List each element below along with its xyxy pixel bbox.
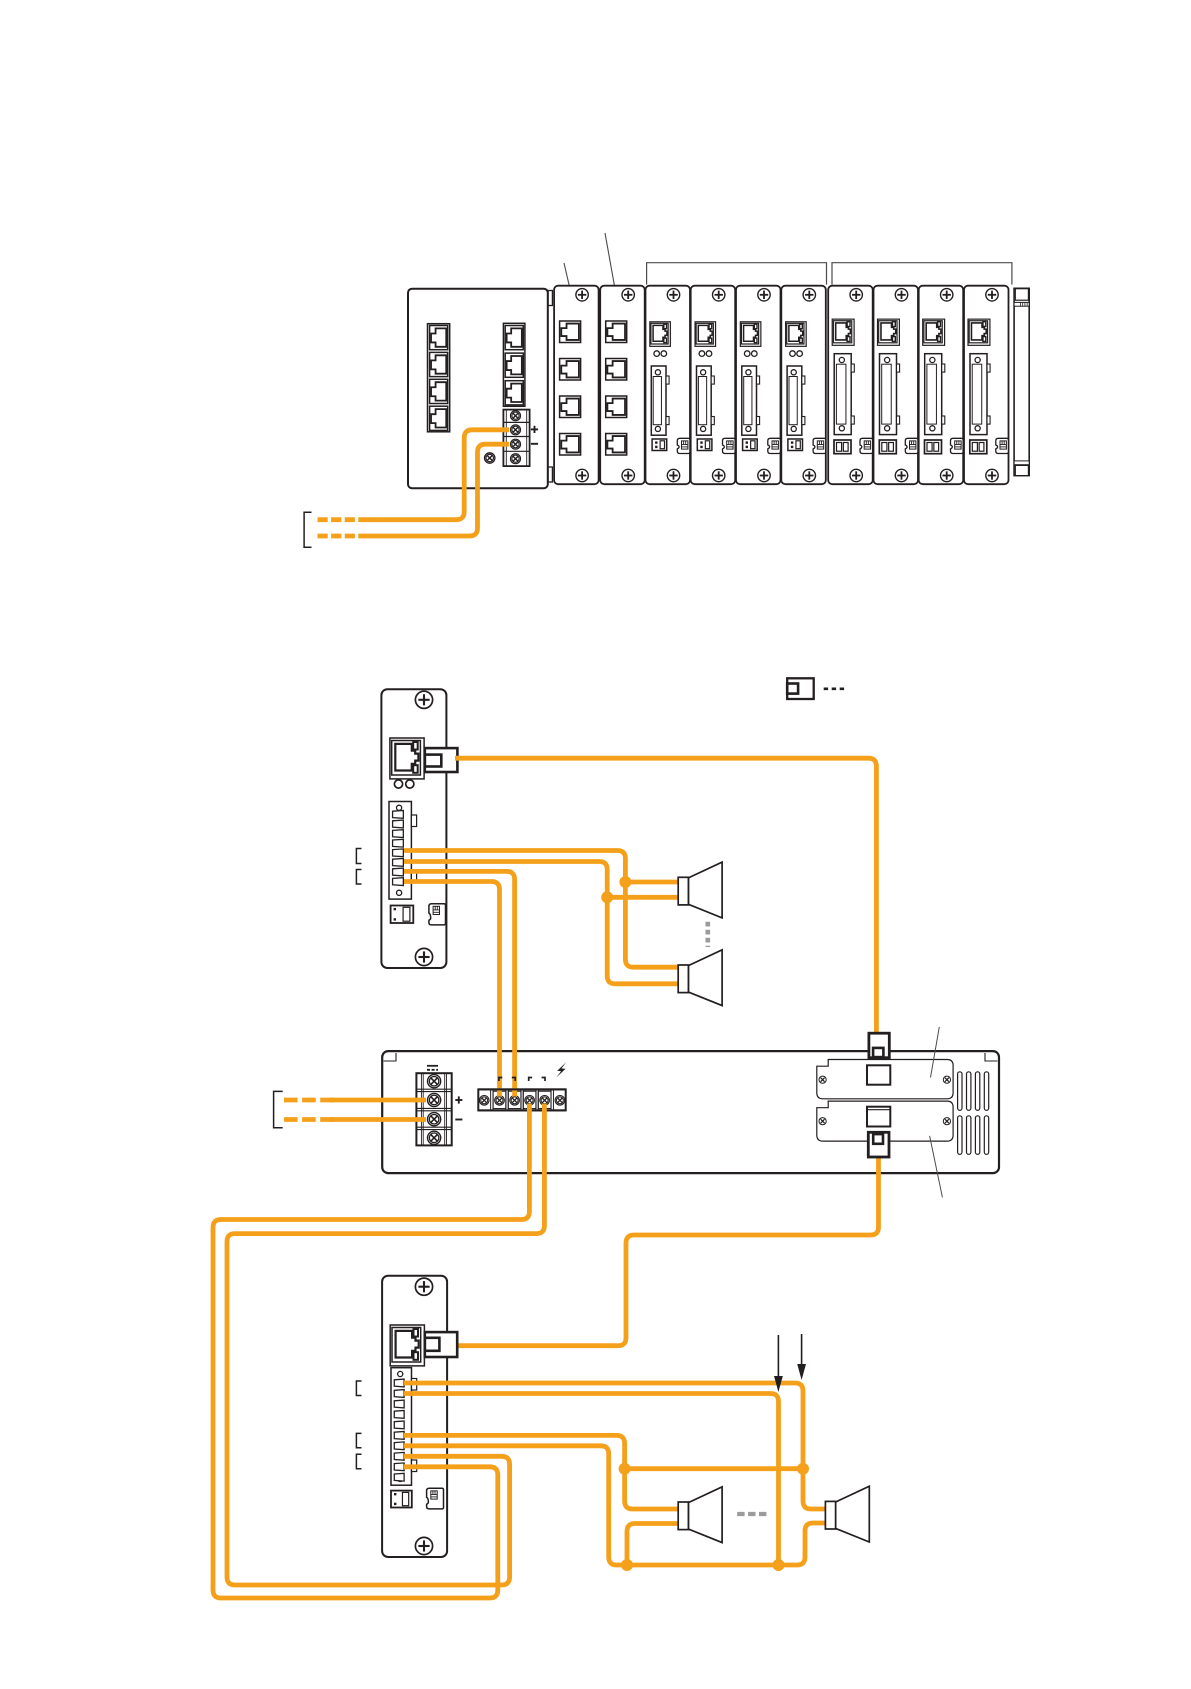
module 2 RJ45 jack 1 — [606, 321, 627, 343]
polarity marks — [499, 1078, 502, 1082]
branch SP4 - — [779, 1523, 826, 1565]
label + (rack) — [531, 428, 538, 430]
frame right RJ45 jack 1 — [505, 326, 523, 350]
module A bottom screw — [415, 948, 432, 965]
amp DC - wire — [330, 1117, 426, 1122]
module 5 top screw — [758, 289, 770, 301]
continuation dashes — [824, 687, 846, 690]
group bracket modules 3-6 — [647, 263, 827, 285]
module 8 monitor connector — [879, 440, 896, 454]
amp speaker terminal screw 5 — [540, 1096, 550, 1106]
module 9 RJ45 port — [923, 319, 945, 345]
vent slot — [975, 1072, 979, 1111]
module 3 top screw — [667, 289, 679, 301]
bus + cross link — [625, 1466, 803, 1471]
module 4 bottom screw — [713, 469, 725, 481]
vent slot — [958, 1072, 962, 1111]
frame left RJ45 jack 4 — [430, 406, 448, 430]
frame tab bottom — [548, 467, 552, 482]
frame chassis screw — [485, 453, 495, 463]
module B RJ45 port — [390, 1325, 424, 1366]
frame left RJ45 jack 1 — [430, 326, 448, 350]
module A panel — [381, 689, 446, 968]
amp DC source bracket — [274, 1091, 283, 1127]
rack end rail — [1014, 288, 1029, 475]
speaker SP3 — [678, 1487, 722, 1543]
module 10 link connector — [996, 438, 1009, 453]
amp DC terminal screw 2 — [428, 1093, 441, 1106]
module A terminal strip — [389, 802, 411, 900]
module 1 RJ45 jack 1 — [560, 321, 581, 343]
module A RJ45 plug — [425, 748, 458, 772]
hazard lightning symbol — [556, 1062, 566, 1077]
module 6 bottom screw — [803, 469, 815, 481]
wire module B pin6 to speaker SP3 + — [404, 1435, 678, 1509]
module A top screw — [415, 691, 432, 708]
rack DC + wire dashed continuation — [314, 517, 369, 522]
module 10 RJ45 port — [968, 319, 990, 345]
module 8 bottom screw — [895, 469, 907, 481]
module slot 4 — [691, 286, 736, 485]
frame right RJ45 jack 2 — [505, 353, 523, 377]
module 5 bottom screw — [758, 469, 770, 481]
module 4 link connector — [723, 438, 736, 453]
module 9 bottom screw — [941, 469, 953, 481]
vent slot — [984, 1072, 988, 1111]
module 1 top screw — [576, 289, 588, 301]
rack DC + wire — [368, 430, 509, 520]
module B bottom screw — [415, 1537, 432, 1554]
amp top-right corner step — [985, 1053, 998, 1061]
module A RJ45 port — [390, 738, 424, 779]
module 2 RJ45 jack 4 — [606, 434, 627, 456]
module slot 5 — [736, 286, 781, 485]
module 6 top screw — [803, 289, 815, 301]
module 7 bottom screw — [850, 469, 862, 481]
continuation plug symbol — [787, 678, 814, 699]
amp plate screw — [819, 1118, 826, 1125]
module 1 bottom screw — [576, 469, 588, 481]
vent slot — [958, 1116, 962, 1155]
amp speaker terminal screw 4 — [525, 1096, 535, 1106]
junction dot bus + left — [619, 1463, 631, 1475]
rack frame unit — [408, 289, 548, 489]
amp slot1 plug — [869, 1033, 889, 1058]
amp DC input block — [416, 1073, 451, 1145]
module 2 RJ45 jack 3 — [606, 396, 627, 418]
rack DC - wire — [368, 444, 509, 536]
amp module slot plate 2 — [817, 1101, 953, 1141]
module B pair bracket 3 — [356, 1454, 361, 1469]
wire module B pin7 to bus - — [404, 1446, 779, 1565]
module 7 top screw — [850, 289, 862, 301]
module 4 status LEDs — [699, 351, 705, 357]
rack DC source bracket — [304, 512, 311, 547]
wire module A pin8 to amp input terminal 2 — [404, 882, 500, 1097]
amp plate screw — [819, 1076, 826, 1083]
module 8 top screw — [895, 289, 907, 301]
rack DC terminal screw 4 — [511, 454, 521, 464]
module 3 terminal strip — [651, 366, 666, 435]
wire module A pin5 to speakers SP1/SP2 + — [404, 851, 678, 968]
module A status LEDs — [394, 780, 402, 788]
module 5 status LEDs — [744, 351, 750, 357]
amp leader line bottom — [930, 1136, 943, 1198]
amp top-left corner step — [384, 1053, 397, 1061]
label + (amp) — [455, 1099, 462, 1101]
module 3 bottom screw — [667, 469, 679, 481]
module 5 RJ45 port — [740, 322, 761, 347]
amplifier chassis — [382, 1051, 999, 1173]
amp plate screw — [943, 1076, 950, 1083]
module 4 terminal strip — [697, 366, 712, 435]
DC symbol — [427, 1065, 438, 1067]
ellipsis between SP3 SP4 — [737, 1512, 767, 1516]
wire module A data plug to amp slot 1 — [455, 758, 876, 1034]
module 2 bottom screw — [622, 469, 634, 481]
wire module B pin2 down — [404, 1394, 779, 1566]
branch SP3 - — [627, 1524, 678, 1566]
module 10 top screw — [986, 289, 998, 301]
amp speaker terminal screw 2 — [495, 1096, 505, 1106]
module B RJ45 plug — [425, 1332, 457, 1357]
frame tab top — [548, 291, 552, 306]
module A pair bracket 1 — [356, 849, 361, 864]
module 9 terminal strip — [925, 354, 942, 435]
module 6 terminal strip — [787, 366, 802, 435]
annotation arrow 2 — [777, 1335, 779, 1378]
module 2 RJ45 jack 2 — [606, 359, 627, 381]
module 10 bottom screw — [986, 469, 998, 481]
module 7 monitor connector — [834, 440, 851, 454]
amp speaker terminal strip — [478, 1089, 565, 1110]
speaker SP1 — [678, 862, 722, 918]
module 1 RJ45 jack 2 — [560, 359, 581, 381]
rack DC - wire dashed continuation — [314, 534, 369, 539]
module 3 status LEDs — [654, 351, 660, 357]
module 9 link connector — [951, 438, 964, 453]
vent slot — [967, 1116, 971, 1155]
speaker SP4 — [825, 1486, 869, 1542]
wire amp slot2 plug to module B data plug — [455, 1156, 879, 1346]
amp slot2 plug — [868, 1132, 889, 1157]
module B pair bracket 1 — [356, 1381, 361, 1396]
rack leader line 2 — [605, 233, 617, 300]
module 8 RJ45 port — [878, 319, 900, 345]
module A link connector — [429, 904, 446, 925]
module B panel — [382, 1276, 447, 1557]
frame left RJ45 jack 2 — [430, 352, 448, 376]
module B pair bracket 2 — [356, 1433, 361, 1447]
vent slot — [975, 1116, 979, 1155]
module B top screw — [415, 1278, 432, 1295]
module 8 link connector — [905, 438, 918, 453]
rack DC terminal screw 1 — [511, 411, 521, 421]
module 6 status LEDs — [790, 351, 796, 357]
vent slot — [984, 1116, 988, 1155]
module 7 RJ45 port — [832, 319, 854, 345]
module 2 top screw — [622, 289, 634, 301]
module 10 monitor connector — [970, 440, 987, 454]
junction dot SP1 - — [601, 891, 613, 903]
module slot 1 — [554, 286, 599, 485]
frame right RJ45 column — [503, 323, 525, 406]
wire module B pin1 to speaker SP4 + — [404, 1383, 825, 1509]
label - (rack) — [531, 443, 538, 445]
module 5 monitor connector — [743, 439, 758, 451]
amp speaker terminal screw 6 — [555, 1096, 565, 1106]
amp module slot plate 1 — [817, 1060, 953, 1099]
frame left RJ45 jack 3 — [430, 379, 448, 403]
amp speaker terminal screw 3 — [510, 1096, 520, 1106]
amp plate screw — [943, 1118, 950, 1125]
amp slot1 socket — [867, 1065, 890, 1084]
module 9 top screw — [941, 289, 953, 301]
amp DC - wire dashed — [284, 1117, 335, 1122]
module 3 link connector — [677, 438, 690, 453]
group bracket modules 7-10 — [832, 263, 1012, 285]
rack DC terminal block — [503, 410, 529, 467]
module 5 terminal strip — [742, 366, 757, 435]
module slot 10 — [964, 286, 1009, 485]
module 6 monitor connector — [788, 439, 803, 451]
module 4 top screw — [713, 289, 725, 301]
junction dot bus - right — [773, 1559, 785, 1571]
junction dot bus + right — [797, 1463, 809, 1475]
vent slot — [967, 1072, 971, 1111]
module B link connector — [427, 1488, 444, 1509]
label - (amp) — [455, 1119, 462, 1121]
module 1 RJ45 jack 4 — [560, 434, 581, 456]
module A pair bracket 2 — [356, 870, 361, 885]
module 7 terminal strip — [834, 354, 851, 435]
rack leader line 1 — [564, 263, 573, 302]
amp DC terminal screw 3 — [428, 1113, 441, 1126]
module 10 terminal strip — [970, 354, 987, 435]
module 1 RJ45 jack 3 — [560, 396, 581, 418]
module 3 RJ45 port — [650, 322, 671, 347]
module slot 8 — [874, 286, 919, 485]
module A monitor connector — [391, 906, 414, 924]
module 4 RJ45 port — [695, 322, 716, 347]
junction dot bus - left — [621, 1559, 633, 1571]
module 6 RJ45 port — [786, 322, 807, 347]
frame left RJ45 column — [428, 324, 450, 432]
amp slot2 socket — [867, 1107, 890, 1127]
speaker SP2 — [678, 950, 722, 1006]
rack DC terminal screw 2 — [511, 425, 521, 435]
rack DC terminal screw 3 — [511, 439, 521, 449]
module B terminal strip — [391, 1368, 412, 1486]
module slot 9 — [919, 286, 964, 485]
annotation arrow 1 — [801, 1334, 803, 1367]
branch to SP1 + — [625, 880, 678, 885]
module slot 3 — [646, 286, 691, 485]
amp output terminal 4 wire loop to module B pin9 — [213, 1104, 529, 1599]
ellipsis between SP1 SP2 — [705, 922, 710, 947]
module 7 link connector — [860, 438, 873, 453]
module slot 2 — [600, 286, 645, 485]
wire module A pin7 to amp input terminal 3 — [404, 871, 515, 1096]
module 8 terminal strip — [880, 354, 897, 435]
module slot 6 — [781, 286, 826, 485]
branch to SP1 - — [607, 895, 678, 900]
amp DC + wire — [330, 1098, 426, 1103]
amp DC terminal screw 1 — [428, 1075, 441, 1088]
module B monitor connector — [391, 1491, 412, 1508]
module slot 7 — [828, 286, 873, 485]
module 3 monitor connector — [652, 439, 667, 451]
junction dot SP1 + — [619, 876, 631, 888]
module 9 monitor connector — [925, 440, 942, 454]
amp DC terminal screw 4 — [428, 1131, 441, 1144]
module 5 link connector — [768, 438, 781, 453]
module 4 monitor connector — [697, 439, 712, 451]
amp leader line top — [931, 1027, 940, 1078]
amp output terminal 5 wire loop to module B pin8 — [227, 1104, 544, 1586]
module 6 link connector — [813, 438, 826, 453]
frame right RJ45 jack 3 — [505, 381, 523, 405]
wire module A pin6 to speakers SP1/SP2 - — [404, 862, 678, 984]
amp speaker terminal screw 1 — [479, 1096, 489, 1106]
amp DC + wire dashed — [284, 1098, 335, 1103]
